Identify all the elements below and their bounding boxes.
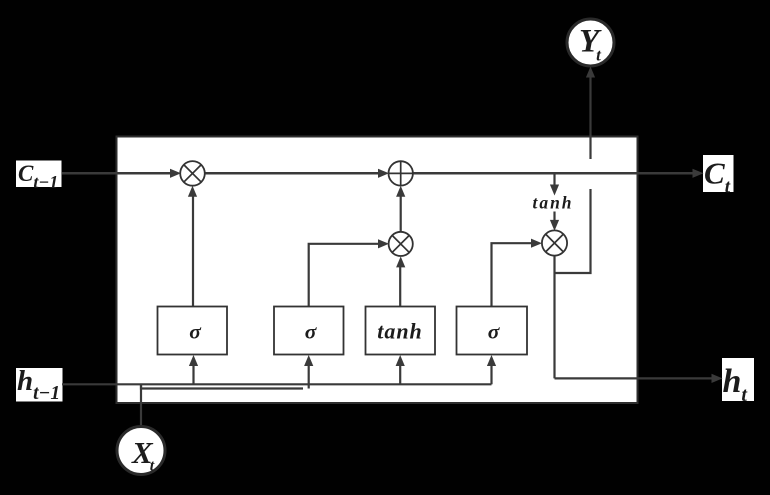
svg-text:Yt: Yt bbox=[579, 24, 602, 65]
svg-text:Xt: Xt bbox=[131, 435, 155, 475]
svg-text:σ: σ bbox=[305, 320, 318, 344]
svg-text:tanh: tanh bbox=[532, 193, 573, 213]
svg-text:tanh: tanh bbox=[377, 319, 423, 344]
svg-text:σ: σ bbox=[189, 320, 202, 344]
svg-text:σ: σ bbox=[488, 320, 501, 344]
